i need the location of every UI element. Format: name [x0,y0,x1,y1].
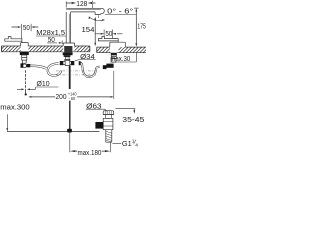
flexible hose left loop [30,63,62,77]
pop-up waste body [95,111,113,143]
svg-text:- 60: - 60 [69,96,76,101]
dimension 200 +140/-60 [28,71,114,101]
label diameter 63 [86,101,107,111]
spout column [63,12,74,46]
label max.30 [110,53,137,64]
svg-text:50: 50 [23,23,30,32]
hose connector and right valve elbow [103,64,114,70]
dimension 154 [82,17,97,47]
dimension 50 right [95,29,123,38]
label M28x1.5 [36,28,66,37]
dimension 50 center [47,35,62,44]
deck right hatching [95,46,153,53]
pull rod dashed below left valve [25,70,27,95]
svg-text:1: 1 [132,139,135,145]
svg-text:50: 50 [105,29,112,38]
svg-text:G1: G1 [122,139,132,148]
hose centerlines dash-dot [56,71,96,75]
dimension 128 [66,0,95,8]
spout arm and tip [66,8,104,14]
svg-text:0° - 6°: 0° - 6° [107,7,133,16]
svg-text:max.300: max.300 [0,102,29,111]
label diameter 34 [75,52,96,61]
svg-text:4: 4 [135,142,138,148]
label G1 1/4 [112,139,138,149]
deck right slab [97,47,146,53]
dimension 35-45 [116,109,145,124]
deck left slab [2,46,90,52]
svg-text:175: 175 [137,22,145,31]
dimension diameter 10 [17,79,59,90]
waste pull rod vertical [69,66,71,153]
dimension max.180 [70,142,110,157]
dimension 50 left [12,23,39,39]
dimension max.300 [0,102,29,131]
svg-text:200: 200 [56,92,67,101]
deck left hatching [0,46,97,53]
waste linkage horizontal rod [7,129,99,133]
svg-text:35-45: 35-45 [122,115,144,124]
svg-text:128: 128 [76,0,87,8]
svg-text:154: 154 [82,25,95,34]
right valve below deck [111,53,117,62]
spout shank and tee below deck [60,46,75,66]
angle adjustment arc 0-6deg [89,15,105,21]
label 0-6 degrees [105,7,137,16]
dimension 175 [134,8,146,47]
svg-text:max.180: max.180 [78,148,102,157]
right lever handle [98,37,125,48]
left valve below deck [20,52,31,68]
svg-text:Ø10: Ø10 [37,79,50,88]
left lever handle [5,37,28,46]
aerator outlet [95,12,100,15]
flexible hose right loop [79,61,100,78]
